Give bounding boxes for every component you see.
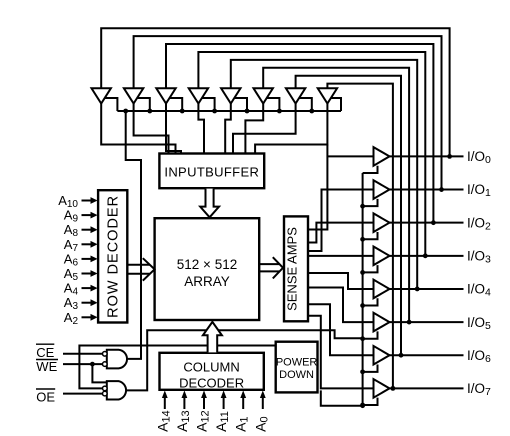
wire buffer B7 output to input buffer block	[233, 104, 296, 155]
wire power-down / gate G2 feed	[79, 346, 275, 389]
junction on enable bus	[245, 109, 250, 114]
junction bottom rail	[360, 403, 365, 408]
wire I/O3 line	[390, 255, 464, 257]
wire enable tap to buffer B4	[202, 98, 215, 111]
svg-text:POWER: POWER	[276, 357, 318, 369]
open arrow row decoder to array	[127, 258, 154, 280]
gate G1 (CE*WE)	[107, 350, 127, 369]
junction I/O4	[415, 287, 420, 292]
wire enable tap to output buffer A3	[363, 232, 378, 239]
label WE (active low)	[36, 359, 58, 374]
wire I/O6 pin to input buffer B7 (top route)	[296, 76, 401, 356]
wire/arrow A10 into row decoder	[82, 197, 98, 204]
label CE (active low)	[36, 344, 55, 360]
wire output-enable bus	[362, 173, 364, 406]
wire enable tap to buffer B2	[137, 98, 150, 111]
junction I/O6	[399, 353, 404, 358]
junction I/O0	[447, 154, 452, 159]
bubble G1 input 1	[103, 352, 108, 357]
wire/arrow A8 into row decoder	[82, 226, 98, 233]
junction on output-enable bus	[360, 303, 365, 308]
wire enable tap to output buffer A1	[363, 166, 378, 173]
junction on output-enable bus	[360, 403, 365, 408]
wire buffer B8 output to input buffer block	[255, 104, 327, 155]
wire sense amp out to buffer A8	[308, 316, 374, 389]
wire I/O3 pin to input buffer B4 (top route)	[198, 52, 425, 256]
wire enable tap to buffer B6	[267, 98, 280, 111]
junction I/O1	[439, 187, 444, 192]
output buffer A2 (triangle)	[374, 180, 390, 199]
svg-text:SENSE AMPS: SENSE AMPS	[285, 227, 300, 311]
wire buffer B1 output to input buffer block	[101, 104, 175, 155]
output buffer A6 (triangle)	[374, 313, 390, 332]
input buffer B6 (triangle)	[254, 88, 273, 103]
label OE (active low)	[36, 389, 55, 405]
wire/arrow A7 into row decoder	[82, 241, 98, 248]
svg-text:ROW DECODER: ROW DECODER	[106, 195, 122, 318]
input buffer B2 (triangle)	[124, 88, 143, 103]
input buffer B5 (triangle)	[221, 88, 240, 103]
wire bottom enable rail	[321, 390, 363, 405]
wire sense amp out to buffer A2	[308, 190, 374, 251]
wire I/O7 line	[390, 387, 464, 389]
junction on output-enable bus	[360, 204, 365, 209]
wire I/O2 line	[390, 222, 464, 224]
svg-text:OE: OE	[36, 390, 55, 405]
bubble G2 input 1	[103, 386, 108, 391]
wire gate G1 to input-buffer enable bus	[126, 111, 141, 359]
junction WE branch	[90, 362, 95, 367]
junction I/O5	[407, 320, 412, 325]
block COLUMN DECODER	[160, 353, 264, 390]
svg-text:CE: CE	[36, 345, 54, 360]
wire sense amp out to buffer A6	[308, 288, 374, 323]
bubble G2 input 2	[103, 391, 108, 396]
output buffer A5 (triangle)	[374, 280, 390, 299]
wire buffer B2 output to input buffer block	[134, 104, 169, 155]
wire buffer B3 output to input buffer block	[166, 104, 181, 155]
wire OE to gate G2	[63, 393, 104, 395]
junction on enable bus	[277, 109, 282, 114]
wire CE to gate G1	[63, 353, 104, 355]
junction on enable bus	[309, 109, 314, 114]
wire I/O5 line	[390, 321, 464, 323]
block 512x512 ARRAY	[155, 218, 260, 320]
junction on output-enable bus	[360, 369, 365, 374]
block SENSE AMPS	[284, 216, 308, 321]
wire enable tap to output buffer A7	[363, 365, 378, 372]
output buffer A7 (triangle)	[374, 346, 390, 365]
wire/arrow A13 into column decoder	[182, 390, 188, 409]
svg-text:512 × 512: 512 × 512	[177, 257, 237, 272]
wire/arrow A0 into column decoder	[260, 390, 266, 409]
output buffer A8 (triangle)	[374, 379, 390, 398]
wire I/O4 pin to input buffer B5 (top route)	[231, 60, 417, 289]
wire sense amp out to buffer A4	[308, 255, 374, 257]
output buffer A3 (triangle)	[374, 213, 390, 232]
svg-text:DOWN: DOWN	[279, 369, 314, 381]
open arrow input buffer to array	[200, 189, 219, 218]
bubble G1 input 2	[103, 362, 108, 367]
wire sense amp out to buffer A7	[308, 304, 374, 355]
wire I/O1 line	[390, 189, 464, 191]
input buffer B1 (triangle)	[92, 88, 111, 103]
wire I/O0 pin to input buffer B1 (top route)	[101, 28, 449, 156]
wire sense amp out to buffer A5	[308, 273, 374, 289]
input buffer B8 (triangle)	[318, 88, 337, 103]
wire/arrow A5 into row decoder	[82, 270, 98, 277]
wire I/O1 pin to input buffer B2 (top route)	[134, 36, 442, 189]
wire/arrow A4 into row decoder	[82, 285, 98, 292]
wire enable tap to output buffer A2	[363, 199, 378, 206]
wire/arrow A9 into row decoder	[82, 212, 98, 219]
junction on enable bus	[212, 109, 217, 114]
wire sense amp out to buffer A3	[308, 223, 374, 243]
wire enable tap to buffer B1	[105, 98, 118, 111]
svg-text:ARRAY: ARRAY	[184, 274, 230, 289]
wire gate G2 to output-enable bus	[127, 330, 363, 390]
junction on enable bus	[180, 109, 185, 114]
wire/arrow A1 into column decoder	[240, 390, 246, 409]
svg-text:DECODER: DECODER	[179, 376, 244, 391]
open arrow column decoder to array	[203, 322, 222, 353]
output buffer A4 (triangle)	[374, 247, 390, 266]
wire/arrow A11 into column decoder	[221, 390, 227, 409]
block ROW DECODER	[98, 190, 127, 322]
input buffer B3 (triangle)	[156, 88, 175, 103]
junction on output-enable bus	[360, 270, 365, 275]
wire buffer B4 output to input buffer block	[198, 104, 204, 155]
wire enable tap to output buffer A8	[363, 398, 378, 405]
wire I/O7 pin to input buffer B8 (top route)	[327, 84, 393, 389]
wire I/O0 line	[390, 155, 464, 157]
wire enable tap to buffer B3	[170, 98, 183, 111]
wire enable tap to buffer B5	[234, 98, 247, 111]
wire/arrow A14 into column decoder	[162, 390, 168, 409]
output buffer A1 (triangle)	[374, 147, 390, 166]
wire/arrow A6 into row decoder	[82, 256, 98, 263]
wire enable tap to output buffer A5	[363, 298, 378, 305]
junction I/O2	[431, 220, 436, 225]
wire WE branch to gate G2	[92, 364, 106, 382]
wire output buffer A1 input	[327, 155, 373, 157]
block POWER DOWN	[276, 342, 318, 393]
svg-text:WE: WE	[36, 359, 57, 374]
wire buffer B6 output to input buffer block	[245, 104, 263, 155]
junction I/O7	[391, 386, 396, 391]
wire buffer B5 output to input buffer block	[225, 104, 231, 155]
wire WE to gate G1	[63, 363, 104, 365]
wire/arrow A12 into column decoder	[201, 390, 207, 409]
junction on output-enable bus	[360, 237, 365, 242]
wire/arrow A3 into row decoder	[82, 299, 98, 306]
wire I/O5 pin to input buffer B6 (top route)	[263, 68, 409, 322]
input buffer B7 (triangle)	[286, 88, 305, 103]
wire/arrow A2 into row decoder	[82, 314, 98, 321]
junction on output-enable bus	[360, 336, 365, 341]
svg-text:INPUTBUFFER: INPUTBUFFER	[164, 165, 259, 180]
wire enable tap to output buffer A6	[363, 331, 378, 338]
wire enable tap to buffer B7	[299, 98, 312, 111]
block INPUTBUFFER	[159, 154, 264, 189]
junction on enable bus	[123, 109, 128, 114]
junction I/O3	[423, 253, 428, 258]
svg-text:COLUMN: COLUMN	[183, 360, 239, 375]
wire I/O6 line	[390, 354, 464, 356]
wire riser to output buffer A1 input	[308, 145, 327, 230]
open arrow array to sense amps	[259, 257, 283, 278]
gate G2 (CE*OE)	[107, 381, 126, 399]
junction on enable bus	[147, 109, 152, 114]
wire enable tap to output buffer A4	[363, 265, 378, 272]
wire input-buffer enable bus	[117, 110, 341, 112]
wire enable tap to buffer B8	[331, 98, 341, 111]
wire I/O2 pin to input buffer B3 (top route)	[166, 44, 433, 223]
wire I/O4 line	[390, 288, 464, 290]
input buffer B4 (triangle)	[189, 88, 208, 103]
